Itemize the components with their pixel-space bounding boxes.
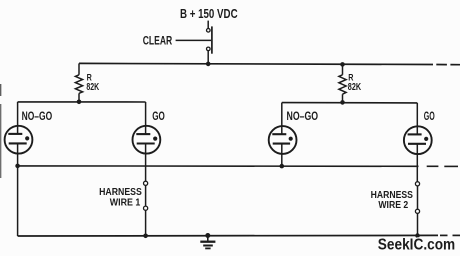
switch S1 bottom contact <box>207 47 211 51</box>
svg-text:WIRE 2: WIRE 2 <box>378 199 408 211</box>
wire: top B+ bus (solid) <box>79 63 433 64</box>
svg-text:NO–GO: NO–GO <box>22 111 53 123</box>
svg-text:NO–GO: NO–GO <box>287 111 319 123</box>
svg-text:CLEAR: CLEAR <box>143 34 173 48</box>
wire: rail down to lamp DS1 <box>17 102 19 134</box>
lamp DS1 NO-GO (left) <box>5 126 33 154</box>
node: R2 bottom junction <box>340 100 345 105</box>
node: harness wire 1 to bus <box>143 234 148 239</box>
wire: bottom bus dashed continuation <box>440 234 460 236</box>
wire: DS2 cathode down to harness connector <box>145 144 147 182</box>
wire: bottom ground bus (solid) <box>18 234 438 237</box>
wire: DS3 cathode to no-go rail <box>281 144 283 167</box>
scan page edge artifact left <box>0 84 2 178</box>
lamp DS2 GO (left) <box>133 126 161 154</box>
resistor R1 82K <box>75 63 82 101</box>
lamp DS3 NO-GO (right) <box>269 126 297 154</box>
wire: CLEAR actuator line <box>176 39 211 41</box>
node: ground junction <box>205 233 210 238</box>
node: R2 top junction <box>340 62 345 67</box>
wire: no-go common rail (solid) <box>18 165 419 167</box>
svg-text:82K: 82K <box>86 82 99 93</box>
wire: rail down to lamp DS4 <box>416 103 418 134</box>
wire: right section upper rail <box>282 102 418 104</box>
node: DS3 to rail junction <box>280 164 285 169</box>
wire: rail down to lamp DS3 <box>281 103 283 135</box>
wire: switch bottom contact to top bus <box>207 51 209 64</box>
node: DS1 to no-go rail junction <box>15 164 20 169</box>
harness wire 1 lower connector <box>144 206 148 210</box>
switch S1 movable bar <box>211 26 213 53</box>
harness wire 1 upper connector <box>144 181 148 185</box>
wire: top B+ bus dashed continuation <box>436 64 460 66</box>
wire: no-go common rail dashed continuation <box>427 165 458 167</box>
ground <box>200 236 215 249</box>
svg-text:B + 150 VDC: B + 150 VDC <box>180 7 238 21</box>
lamp DS4 GO (right) <box>404 126 432 154</box>
svg-text:82K: 82K <box>348 82 361 93</box>
svg-text:WIRE 1: WIRE 1 <box>110 197 141 209</box>
wire: from B+150 VDC down to switch top contact <box>207 21 209 29</box>
node: R1 bottom junction <box>77 100 82 105</box>
wire: DS4 cathode down to harness connector <box>416 144 418 182</box>
wire: harness wire 1 to bottom bus <box>145 210 147 236</box>
wire: left section upper rail <box>18 101 146 103</box>
svg-text:GO: GO <box>424 111 435 123</box>
wire: harness wire 2 <box>417 186 419 209</box>
wire: rail down to lamp DS2 <box>145 102 147 134</box>
node: harness wire 2 to bus <box>415 233 420 238</box>
wire: harness wire 2 to bottom bus <box>417 214 419 236</box>
harness wire 2 upper connector <box>415 182 419 186</box>
wire: harness wire 1 <box>145 186 147 207</box>
svg-text:SeekIC.com: SeekIC.com <box>378 237 455 254</box>
resistor R2 82K <box>339 64 346 102</box>
svg-text:GO: GO <box>152 111 165 123</box>
switch S1 top contact <box>207 29 211 33</box>
harness wire 2 lower connector <box>415 209 419 213</box>
node: switch to bus junction <box>206 62 211 67</box>
wire: DS1 cathode down to bottom bus <box>17 143 19 236</box>
